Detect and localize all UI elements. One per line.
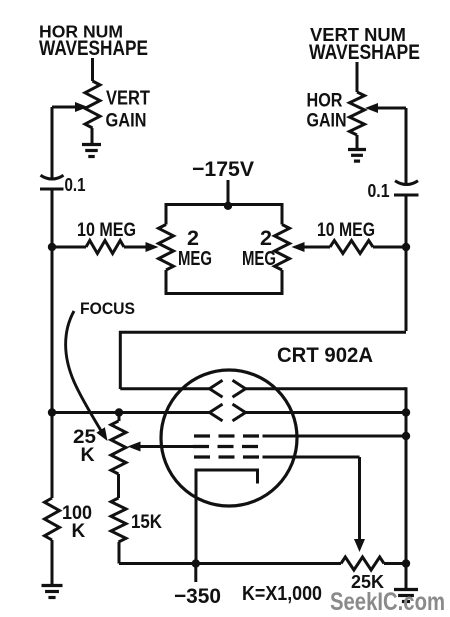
junction dot left rail plate2 (48, 408, 56, 416)
svg-text:MEG: MEG (178, 247, 212, 270)
junction dot rail 25K (402, 559, 410, 567)
wire centering loop top (165, 203, 284, 206)
potentiometer R 2 MEG left (165, 203, 168, 225)
wire centering loop bottom (165, 292, 284, 295)
svg-text:WAVESHAPE: WAVESHAPE (39, 37, 148, 60)
svg-text:SeekIC.com: SeekIC.com (330, 588, 445, 616)
svg-text:−350: −350 (174, 584, 221, 608)
resistor R 10 MEG right (373, 246, 406, 249)
wire pot to ground (356, 135, 359, 148)
svg-text:−175V: −175V (192, 157, 255, 181)
svg-text:K: K (81, 444, 95, 466)
wiper wire HOR GAIN (365, 103, 378, 113)
potentiometer R 2 MEG right (281, 203, 284, 225)
svg-text:GAIN: GAIN (106, 111, 147, 132)
svg-text:CRT 902A: CRT 902A (277, 343, 373, 367)
svg-text:K=X1,000: K=X1,000 (242, 583, 322, 605)
ground below VERT GAIN (82, 143, 101, 146)
junction dot rail grid1 (402, 432, 410, 440)
arrow onto 25K intensity pot (354, 539, 365, 552)
potentiometer R 25K intensity (341, 557, 384, 570)
wire plate1 left (120, 387, 209, 390)
wire top bus to CRT plate1 (119, 331, 406, 334)
CRT deflection plate pair 2 (210, 404, 223, 421)
wire plate2 right to rail (246, 411, 407, 414)
CRT grid dashed row 2 (193, 445, 258, 448)
junction dot left rail 10MEG (48, 243, 56, 251)
svg-text:10 MEG: 10 MEG (317, 220, 375, 241)
svg-text:WAVESHAPE: WAVESHAPE (309, 41, 420, 64)
ground bottom left (42, 584, 63, 587)
svg-text:15K: 15K (131, 512, 162, 533)
CRT grid dashed row 3 (194, 455, 259, 458)
svg-text:0.1: 0.1 (368, 181, 390, 201)
wire -350 stub (194, 564, 197, 583)
svg-text:GAIN: GAIN (307, 111, 347, 132)
CRT envelope circle (161, 370, 297, 506)
wire input to R HOR GAIN (356, 62, 359, 92)
ground below HOR GAIN (348, 148, 366, 151)
junction dot right rail 10MEG (402, 243, 410, 251)
resistor R 10 MEG left (52, 246, 86, 249)
wire grid row3 to intensity pot (263, 456, 360, 459)
CRT heater cathode (196, 470, 258, 564)
junction dot rail plate2 (402, 408, 410, 416)
junction dot heater bus (192, 559, 200, 567)
wiper wire VERT GAIN (52, 106, 78, 109)
CRT grid dashed row 1 (194, 434, 259, 437)
resistor R 15K (111, 498, 126, 542)
wire input to R VERT GAIN (91, 58, 94, 81)
potentiometer VERT GAIN (85, 81, 100, 128)
resistor R 100K (51, 413, 54, 499)
wire 15K to bottom bus (118, 542, 121, 564)
potentiometer HOR GAIN (350, 92, 365, 135)
wire 100K to ground (51, 540, 54, 584)
capacitor C1 0.1 left (41, 175, 64, 179)
wire left rail (51, 189, 54, 413)
svg-text:FOCUS: FOCUS (80, 299, 135, 318)
wire grid row1 to rail (263, 435, 407, 438)
wire plate2 left (52, 411, 210, 414)
wire plate1 right to rail (246, 387, 407, 390)
potentiometer R 25K focus (111, 421, 126, 474)
svg-text:10 MEG: 10 MEG (77, 220, 136, 241)
focus pointer arrow (66, 311, 103, 434)
svg-text:0.1: 0.1 (65, 175, 86, 195)
svg-text:HOR: HOR (307, 91, 343, 112)
capacitor C2 0.1 right (395, 181, 418, 185)
ground bottom right (394, 588, 418, 591)
svg-text:MEG: MEG (242, 247, 276, 270)
wire plate2 node down to 25K (118, 413, 121, 422)
svg-text:VERT: VERT (106, 88, 150, 110)
wire grid row2 to focus pot (137, 445, 193, 448)
svg-text:K: K (72, 521, 86, 542)
CRT deflection plate pair 1 (210, 380, 223, 397)
junction dot -175V bus (224, 202, 232, 210)
wire 25K to 15K (117, 474, 120, 498)
wire pot to ground (91, 128, 94, 143)
junction dot plate2 25K (115, 408, 123, 416)
wire right rail upper (405, 195, 408, 331)
